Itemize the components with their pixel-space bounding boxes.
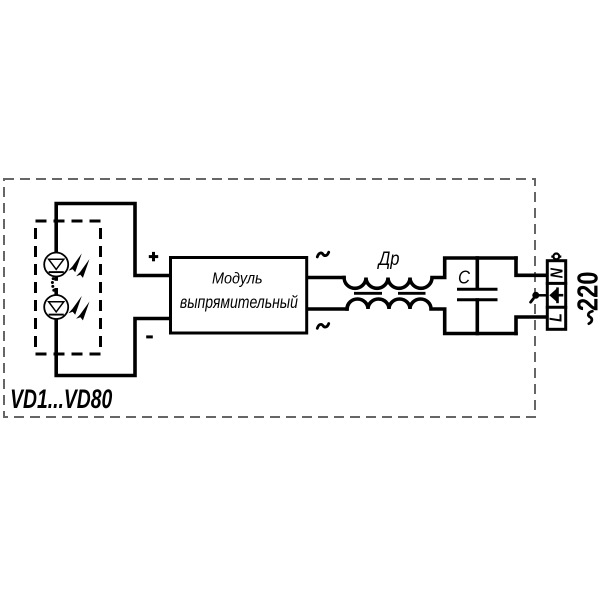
svg-text:L: L: [547, 313, 566, 322]
svg-text:Др: Др: [377, 248, 400, 270]
svg-text:N: N: [548, 268, 567, 279]
svg-text:C: C: [458, 266, 470, 287]
svg-text:220: 220: [571, 271, 600, 311]
svg-text:выпрямительный: выпрямительный: [180, 292, 298, 312]
svg-text:Модуль: Модуль: [212, 270, 263, 288]
svg-text:VD1...VD80: VD1...VD80: [10, 384, 112, 414]
